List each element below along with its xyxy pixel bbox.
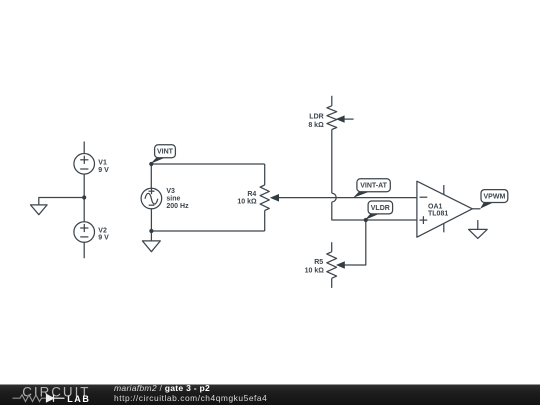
svg-text:http://circuitlab.com/ch4qmgku: http://circuitlab.com/ch4qmgku5efa4 — [114, 393, 267, 403]
svg-text:TL081: TL081 — [428, 211, 448, 218]
svg-text:V1: V1 — [98, 159, 107, 166]
svg-text:LAB: LAB — [67, 394, 90, 404]
svg-text:V2: V2 — [98, 227, 107, 234]
svg-text:R5: R5 — [314, 259, 323, 266]
svg-text:mariafbm2 / gate 3 - p2: mariafbm2 / gate 3 - p2 — [114, 383, 210, 393]
svg-text:OA1: OA1 — [428, 204, 443, 211]
svg-text:10 kΩ: 10 kΩ — [237, 199, 257, 206]
svg-text:9 V: 9 V — [98, 167, 109, 174]
svg-text:8 kΩ: 8 kΩ — [308, 122, 324, 129]
svg-text:VLDR: VLDR — [371, 205, 390, 212]
svg-text:LDR: LDR — [309, 113, 323, 120]
svg-text:VINT: VINT — [157, 149, 174, 156]
svg-text:VPWM: VPWM — [484, 194, 506, 201]
svg-text:200 Hz: 200 Hz — [166, 203, 189, 210]
svg-text:sine: sine — [166, 195, 180, 202]
svg-text:10 kΩ: 10 kΩ — [305, 268, 325, 275]
svg-text:9 V: 9 V — [98, 235, 109, 242]
svg-text:R4: R4 — [247, 191, 256, 198]
svg-text:V3: V3 — [166, 188, 175, 195]
svg-text:VINT-AT: VINT-AT — [360, 183, 387, 190]
